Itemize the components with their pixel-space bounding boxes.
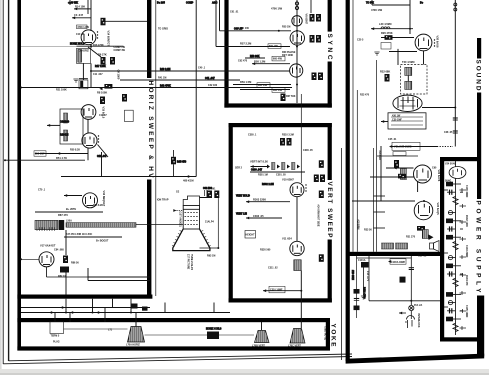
svg-text:C302 .05: C302 .05 (253, 214, 264, 218)
svg-text:600 1/W: 600 1/W (258, 84, 268, 87)
resistor R104 (110, 57, 115, 65)
svg-text:5U4G: 5U4G (445, 179, 451, 182)
resistor PS R207 (446, 235, 461, 240)
svg-text:R86 56: R86 56 (71, 261, 79, 264)
wire y=89.5 (240, 89, 290, 91)
wire long horizontal y=71 (91, 70, 290, 72)
svg-text:R320 560: R320 560 (260, 248, 271, 251)
CRT grid dashes 1 (185, 212, 199, 214)
svg-text:T2 HORIZ: T2 HORIZ (78, 50, 89, 53)
wire right sheet bottom bar (346, 354, 485, 364)
capacitor C100A label box (390, 259, 406, 264)
resistor PS zigzag R233 (453, 196, 458, 204)
resistor R25 (394, 160, 399, 168)
resistor pair R61 R62 (310, 14, 322, 22)
node dot y=30.8 (278, 30, 280, 32)
deflection yoke horiz coil L70A (128, 327, 145, 343)
svg-text:C105 10MF: C105 10MF (465, 305, 468, 318)
label box C103 (393, 152, 406, 156)
wire x=363.5 down (363, 268, 365, 296)
svg-text:DET 100K: DET 100K (282, 54, 293, 57)
wire rail x=376.5 (376, 60, 378, 252)
svg-text:ION TRAP: ION TRAP (157, 199, 169, 202)
PS right ticks r7 (460, 291, 467, 295)
wire plate to right rail (422, 107, 455, 109)
tube V7 phase det (290, 64, 303, 77)
ground lowright (361, 296, 366, 299)
capacitor PS C206 (447, 226, 463, 231)
ground below R21 (374, 52, 379, 55)
wire stub down x=55 (54, 313, 56, 323)
svg-text:C41 .047: C41 .047 (205, 77, 215, 80)
svg-text:FU1 2A: FU1 2A (414, 304, 423, 307)
resistor pair R204 R205 (314, 175, 325, 183)
wire arrow left y=153.5 (57, 152, 60, 155)
wire x=369 down (368, 256, 370, 301)
wire R45 stub down (173, 164, 175, 176)
wire yoke inner y=329 (64, 328, 128, 330)
svg-text:21T PICTURE: 21T PICTURE (187, 254, 190, 270)
svg-text:480 K1M: 480 K1M (183, 179, 194, 183)
wire y=160.2 from page edge (5, 159, 85, 161)
svg-text:430 1W: 430 1W (392, 114, 401, 117)
svg-text:L70B VERT: L70B VERT (252, 344, 265, 347)
T21 winding lines (391, 117, 423, 125)
wire stub down x=70 (69, 313, 71, 323)
svg-text:HORIZ COILS: HORIZ COILS (206, 328, 222, 331)
svg-text:VERT LIN: VERT LIN (236, 212, 247, 215)
svg-text:V6 6SN7: V6 6SN7 (305, 14, 309, 25)
svg-text:C28 .05: C28 .05 (444, 131, 453, 134)
resistor pair R65 R66 (312, 73, 324, 81)
svg-text:#18 BLK: #18 BLK (378, 151, 381, 161)
wire arrow volume (389, 145, 392, 148)
svg-text:R67 56K: R67 56K (286, 95, 296, 98)
capacitor C110 stack (354, 299, 359, 301)
svg-text:C11 .047: C11 .047 (93, 73, 103, 76)
svg-text:R33 56: R33 56 (364, 229, 372, 232)
svg-text:TUBE 21ALP4: TUBE 21ALP4 (190, 254, 193, 271)
wire rail x=455 (454, 0, 456, 147)
wire grid feed horizontal y=8.9 (74, 8, 91, 10)
wire stub x=66 to bottom bar (65, 273, 67, 296)
coil inside T3 upper (64, 113, 68, 123)
wire vertical x=66 (65, 230, 67, 255)
node dots sound (409, 28, 456, 202)
svg-text:T20 4.5MC: T20 4.5MC (402, 60, 415, 64)
capacitor C55 label box (34, 151, 46, 156)
wire YOKE block right bar (326, 318, 330, 351)
resistor R45 midgap (171, 157, 176, 165)
svg-text:B+ BOOST: B+ BOOST (96, 240, 109, 243)
capacitor C100B symbol (409, 267, 414, 269)
inductor L1 bumps (381, 27, 390, 29)
capacitor C210 label box (269, 286, 285, 293)
wire HORIZ block right bar upper segment (147, 0, 151, 78)
label box 600 1W d (272, 88, 285, 93)
resistor PS R201 (446, 182, 461, 187)
svg-text:4700 1/W: 4700 1/W (371, 8, 383, 12)
tube V11 vert output (290, 241, 304, 255)
svg-text:C80 500: C80 500 (203, 187, 213, 190)
svg-text:V23 6AQ5: V23 6AQ5 (436, 203, 440, 216)
capacitor C22 box (381, 43, 391, 50)
svg-text:SER 2: SER 2 (235, 166, 243, 169)
wire dotted into PS (437, 146, 453, 148)
choke L24 (382, 243, 394, 249)
fuse FU1 circle-x (409, 305, 414, 310)
wire stub down x=136 (135, 313, 137, 327)
wire takeoff y=28.7 with arrow (371, 27, 413, 30)
wire VERT block top bar (229, 123, 332, 127)
svg-text:VERT INT 8.2K: VERT INT 8.2K (250, 160, 268, 164)
svg-text:C90: C90 (432, 166, 437, 169)
wire horiz left entry y=46.5 (21, 46, 77, 48)
wire top stub x=88 (87, 0, 89, 14)
label box 600 1W b (272, 56, 285, 61)
yoke terminal box (50, 322, 64, 334)
capacitor C27 on rail (453, 118, 458, 120)
label 4700 1.8W box (77, 25, 88, 29)
svg-text:TO PIX: TO PIX (366, 1, 374, 4)
CRT grid dashes 2 (185, 216, 199, 218)
wire yoke vert x=258 stub (261, 322, 263, 330)
wire damper link (21, 258, 39, 260)
interlock plug P1 (405, 316, 415, 329)
deflection yoke vert coil L70B (255, 331, 270, 343)
resistor R203 (319, 160, 324, 168)
wire V15 to T3 (87, 120, 89, 134)
capacitor PS C211 (447, 271, 463, 276)
wire right sheet edge thin (341, 148, 343, 360)
node dot at left bar y=87.5 (20, 87, 22, 89)
wire main left thick frame bar (17, 0, 21, 351)
wire y=300.8 horizontal (369, 300, 440, 302)
svg-text:C62 470: C62 470 (238, 60, 248, 63)
wire arrow into V17 (64, 194, 82, 197)
wire long horizontal y=30.8 to sync (220, 30, 292, 32)
svg-text:R55 1M: R55 1M (282, 26, 290, 29)
svg-text:L20 4.5MC: L20 4.5MC (379, 22, 392, 26)
resistor R106 (104, 84, 112, 89)
wire pair y=280.5 (88, 280, 150, 282)
tube V18 damper (39, 252, 54, 267)
svg-text:C20 5: C20 5 (357, 38, 364, 41)
wire channel bus y=307.5 (21, 307, 150, 309)
yoke connector dark box (207, 332, 219, 340)
wire SYNC block left bar (224, 0, 228, 108)
wire arrows on bus (49, 306, 99, 314)
svg-text:YOKE: YOKE (329, 324, 336, 348)
wire arrow c100a (388, 260, 391, 263)
svg-text:PLUG: PLUG (53, 341, 60, 344)
wire R101 to bar (106, 20, 148, 22)
svg-text:AGC: AGC (212, 1, 218, 4)
wire SOUND block left bar (346, 0, 350, 361)
resistor R109 (122, 94, 127, 102)
CRT grid dashes 3 (185, 220, 199, 222)
tube V6A sync sep (292, 16, 302, 26)
resistor R27 (417, 226, 425, 231)
wire top link y=5 (372, 4, 410, 6)
wire arrow on grid feed (74, 7, 77, 10)
svg-text:C9 1500: C9 1500 (117, 70, 121, 80)
svg-text:R19 1M: R19 1M (60, 133, 68, 136)
capacitor C101A dark (361, 262, 369, 268)
wire inner line right sheet (352, 0, 354, 252)
wire VERT block left bar (229, 123, 233, 303)
svg-text:R93 1M: R93 1M (207, 254, 215, 257)
wire vertical x=91 from T2 down (90, 63, 92, 87)
wire SOUND block bottom bar (347, 252, 444, 256)
svg-text:L70A HORIZ: L70A HORIZ (126, 344, 140, 347)
svg-text:R87 470: R87 470 (58, 213, 68, 217)
wire vertical x=219.5 (219, 0, 221, 31)
svg-text:VOLUME 1MEG: VOLUME 1MEG (394, 146, 412, 149)
resistor pair R63 R64 (310, 35, 322, 43)
coil winding inside T2 (78, 50, 82, 63)
wire SYNC block right bar upper (328, 0, 332, 32)
node junction dot x=91 y=46 (90, 45, 92, 47)
wire x=398 drop (397, 49, 399, 65)
wire long y=201 (352, 200, 415, 202)
wire stub up x=165 (164, 303, 166, 313)
svg-text:V10 6SN7: V10 6SN7 (282, 178, 294, 182)
svg-text:R310 3.3M: R310 3.3M (282, 134, 294, 137)
flyback long winding to CRT (66, 223, 136, 228)
wire rail x=373.5 (373, 148, 375, 252)
svg-text:(1ST ANODE): (1ST ANODE) (179, 212, 182, 227)
svg-text:C13 47: C13 47 (99, 114, 107, 117)
wire y=248 neck to x218 (200, 247, 219, 249)
svg-text:#18 GRN: #18 GRN (351, 270, 354, 280)
terminal PS circle 14 (448, 301, 456, 305)
wire inner line right of horiz bar (155, 0, 157, 296)
svg-text:+140 WK: +140 WK (68, 1, 78, 4)
wire page border bottom thin 2 (9, 354, 352, 361)
wire top stub x=70 (69, 0, 71, 5)
wire T2 to C52 link (82, 63, 84, 80)
svg-text:INTERLOCK: INTERLOCK (417, 314, 420, 328)
resistor R90 (207, 191, 212, 199)
svg-text:R301 1M: R301 1M (258, 173, 268, 176)
discriminator box T3 (60, 109, 83, 144)
wire right sheet right bar segment c (477, 296, 481, 357)
wire arrow into R106 (99, 87, 102, 90)
wire diagonal to R103 (88, 47, 101, 57)
wire right sheet right bar segment a (477, 38, 481, 59)
antenna terminals top (295, 2, 298, 10)
wire dashed drive into neck (177, 210, 184, 212)
svg-text:R303 220K: R303 220K (253, 198, 266, 202)
terminal PS circle 4 (448, 211, 456, 215)
PS right ticks r3 (460, 220, 467, 224)
wire arrow into T3 (47, 124, 60, 127)
wire cathode y=46.2 (77, 45, 124, 47)
svg-text:R102 1200: R102 1200 (465, 215, 468, 227)
wire VERT block bottom bar (229, 298, 332, 302)
svg-text:C55 1MF: C55 1MF (35, 153, 45, 156)
svg-text:C301 .05: C301 .05 (276, 173, 286, 176)
capacitor C83 dark (60, 267, 69, 273)
resistor R22 (385, 74, 390, 82)
tube V10 vert osc (290, 183, 304, 197)
wire fuse to interlock (410, 311, 412, 319)
wire y=51.5 (389, 51, 417, 53)
wire sync spine x=297 (296, 0, 298, 103)
svg-text:600 4/W: 600 4/W (273, 58, 283, 61)
svg-text:C10 .05: C10 .05 (76, 33, 85, 36)
page scan edges (0, 0, 2, 375)
CRT neck inner line (183, 208, 199, 210)
PS right ticks r8 (460, 309, 467, 313)
wire page border thin left 2 (8, 0, 10, 361)
tube V22 audio amp (414, 165, 432, 183)
wire y=37.5 (381, 37, 414, 39)
node dot y=71 (90, 70, 92, 72)
wire b+ stack vertical x=356.5 (356, 256, 358, 318)
wire y=153.5 with arrow R51 (35, 153, 88, 155)
svg-text:R57 2.2M: R57 2.2M (240, 42, 251, 46)
capacitor C91 dark box channel (142, 307, 148, 311)
coil L22 (401, 169, 407, 180)
svg-text:VERT SWEEP: VERT SWEEP (326, 182, 333, 239)
wire stub up x=131 (130, 299, 132, 313)
resistor R91 (214, 191, 219, 199)
node dots tube pins c (305, 184, 306, 191)
resistor PS zigzag R242 (453, 278, 458, 286)
wire VERT block right bar upper (328, 123, 332, 180)
tube V23 audio output (414, 201, 433, 220)
svg-text:L70C VERT: L70C VERT (288, 345, 301, 348)
node dot fuse top (410, 300, 412, 302)
wire top feed x=410 (409, 0, 411, 34)
wire yoke link L70A to conn (145, 334, 208, 336)
svg-text:R59 1.5M: R59 1.5M (240, 80, 251, 84)
node dots tube pins a (97, 31, 98, 38)
svg-text:V22 6AV6: V22 6AV6 (437, 170, 441, 182)
svg-text:HEIGHT: HEIGHT (246, 234, 256, 237)
svg-text:V20 6AU6: V20 6AU6 (436, 36, 440, 49)
wire vertical x=88 lower (87, 268, 89, 281)
svg-text:B+ 265V: B+ 265V (66, 207, 76, 211)
svg-text:R14 10K: R14 10K (75, 5, 85, 9)
wire YOKE block top bar (17, 318, 330, 322)
wire x=297 between tubes (296, 197, 298, 242)
wire channel bus y=312.5 (21, 312, 230, 314)
svg-text:600 1/W: 600 1/W (269, 45, 279, 48)
svg-text:R40 2.2M: R40 2.2M (160, 68, 170, 71)
svg-text:R21 100K: R21 100K (56, 89, 67, 92)
capacitor C90 dark box channel (131, 304, 138, 309)
wire page border bottom thin 1 (3, 357, 352, 364)
volume control box (392, 142, 420, 150)
wire y=290.7 with arrow (263, 289, 301, 292)
wire vertical long x=196 (195, 0, 197, 177)
CRT grid dashes 4 (185, 224, 199, 226)
wire POWER SUPPLY block top bar (440, 157, 481, 161)
resistor PS R210 (446, 264, 461, 269)
svg-text:C42 180: C42 180 (208, 84, 218, 87)
CRT top cap bracket (183, 196, 199, 206)
resistor R21 horizontal (385, 35, 393, 40)
wire plate feed vertical at x=91 top (90, 0, 92, 31)
capacitor C52 (79, 79, 88, 89)
PS right ticks r2 (460, 204, 467, 208)
wire x=301 coil down (300, 271, 302, 291)
wire YOKE block bottom bar (17, 346, 330, 350)
wire VERT block right bar lower (328, 240, 332, 303)
output transformer T21 box (388, 113, 426, 129)
wire y=84.5 (233, 84, 291, 86)
T20 coil lower (405, 81, 412, 89)
svg-text:4700 1/W: 4700 1/W (271, 6, 283, 10)
svg-text:C300 .047: C300 .047 (251, 168, 263, 171)
svg-text:4700 1.8W: 4700 1.8W (77, 26, 89, 29)
svg-text:R58 1.2M: R58 1.2M (254, 59, 265, 63)
svg-text:C305 .1: C305 .1 (248, 134, 257, 137)
wire y=176.5 toward 196 (61, 176, 196, 178)
resistor R67 (281, 94, 286, 102)
wire arrow y=17.8 (72, 16, 75, 19)
PS right ticks r5 (460, 255, 467, 259)
wire y=201.7 with arrow (246, 200, 290, 203)
IF transformer T20 dashed box (401, 65, 428, 95)
wire x=411.3 vertical (410, 256, 412, 306)
resistor R29 (398, 174, 406, 179)
svg-text:R82 10: R82 10 (58, 275, 66, 278)
capacitor PS C202 (447, 190, 463, 195)
svg-text:R16 470K: R16 470K (93, 44, 104, 47)
CRT flare hatch right (201, 231, 211, 247)
wire sound y=156 (377, 155, 418, 157)
resistor R103 (101, 57, 106, 65)
wire y=63.7 with arrow (252, 62, 290, 65)
svg-text:C61 .01: C61 .01 (230, 10, 239, 13)
svg-text:R20 470K: R20 470K (381, 31, 393, 35)
tube V16 horiz output (82, 133, 97, 148)
svg-text:(SEE NOTE): (SEE NOTE) (324, 327, 327, 341)
resistor PS R216 (446, 317, 461, 322)
svg-text:#18 BRN: #18 BRN (357, 220, 360, 230)
PS right ticks r4 (460, 237, 467, 241)
svg-text:R85 8.2K: R85 8.2K (93, 204, 103, 207)
svg-text:C306 .05: C306 .05 (303, 149, 313, 152)
wire below sound bar y=258 (357, 257, 412, 259)
wire PS spine (455, 179, 457, 336)
svg-text:R110 4700: R110 4700 (363, 287, 366, 299)
svg-text:HORIZ HOLD: HORIZ HOLD (70, 43, 85, 46)
flyback core dark box (59, 220, 64, 230)
svg-text:R302 2.2M: R302 2.2M (262, 183, 274, 186)
wire y=212 (35, 211, 103, 213)
wire diagonal from V16 (98, 145, 109, 158)
wire SYNC block right bar lower (328, 62, 332, 108)
wire stub down x=105 (104, 308, 106, 323)
svg-text:C35 .02: C35 .02 (418, 254, 427, 257)
wire x=301 through bottom bar to yoke (300, 291, 302, 328)
wire SYNC block bottom bar (224, 103, 331, 107)
vert output coil (294, 260, 301, 271)
svg-text:C70 .1: C70 .1 (38, 188, 46, 191)
svg-text:L71: L71 (108, 328, 113, 331)
wire tube to T2 link (90, 45, 92, 49)
resistor R110 stack (354, 289, 360, 294)
node dots tube pins d (434, 39, 435, 46)
svg-text:COMP: COMP (186, 1, 194, 4)
node dots bus (65, 312, 132, 314)
svg-text:SYNC: SYNC (326, 34, 333, 61)
